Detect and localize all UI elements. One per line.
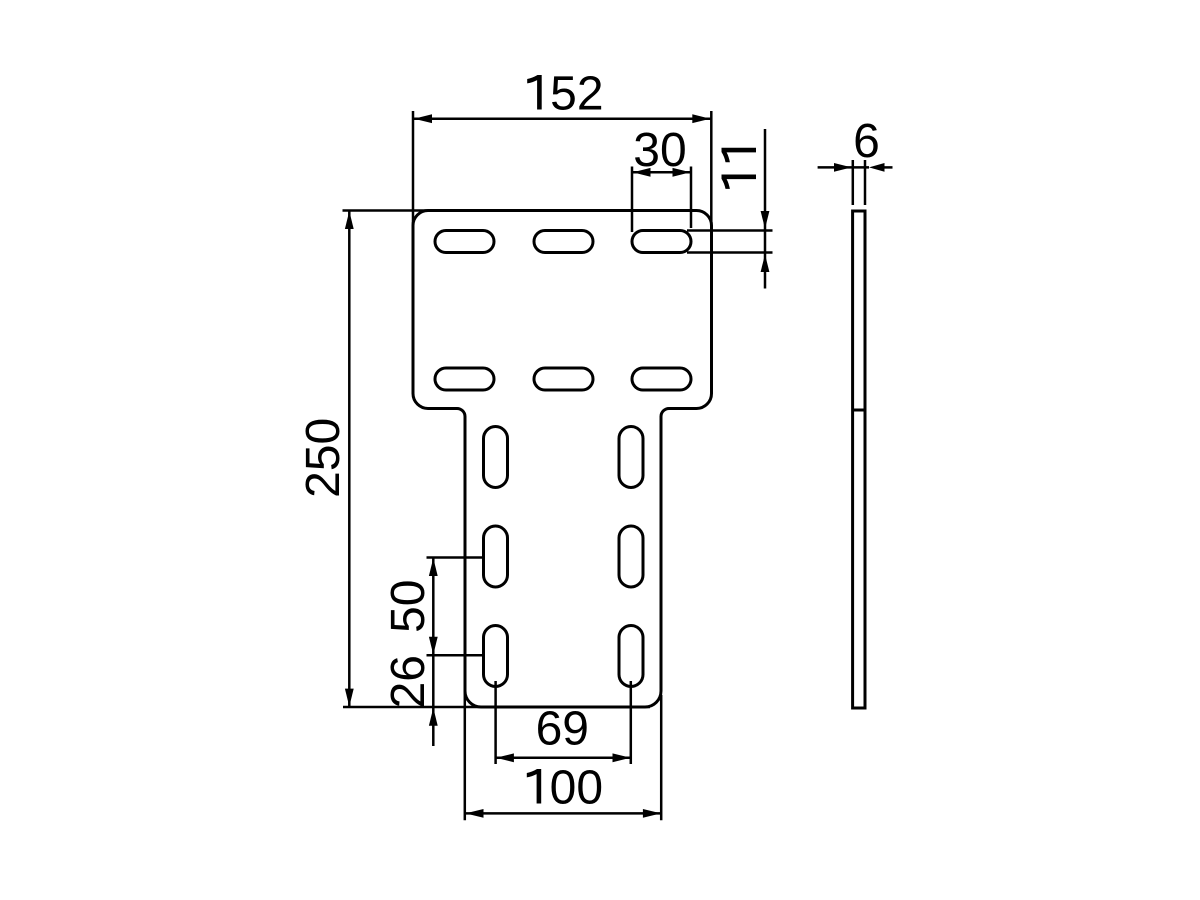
svg-text:250: 250 [297,418,350,498]
svg-text:00: 00 [550,762,603,815]
svg-text:6: 6 [853,115,880,168]
svg-text:26: 26 [382,655,435,708]
svg-text:69: 69 [536,703,589,756]
svg-text:52: 52 [550,68,603,121]
svg-text:50: 50 [382,580,435,633]
svg-text:30: 30 [633,124,686,177]
